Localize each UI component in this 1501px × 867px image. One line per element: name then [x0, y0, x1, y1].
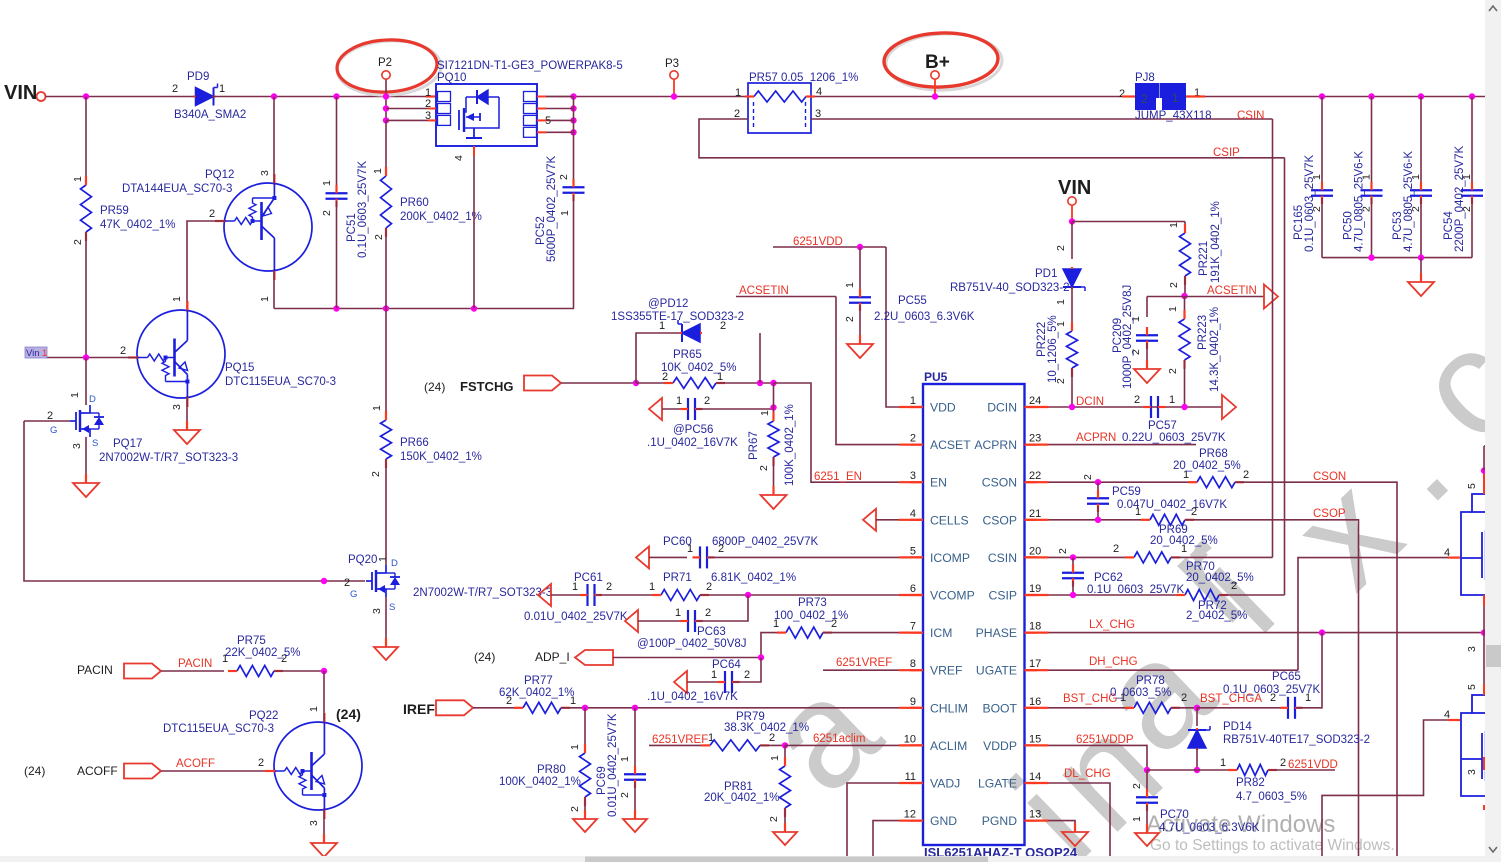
svg-text:2: 2: [1055, 245, 1067, 251]
svg-text:PR223: PR223: [1197, 315, 1209, 350]
svg-text:PQ22: PQ22: [249, 710, 278, 722]
svg-text:4: 4: [1444, 547, 1450, 559]
svg-text:GND: GND: [930, 814, 957, 828]
svg-text:S: S: [389, 602, 395, 613]
svg-text:(24): (24): [336, 706, 361, 722]
svg-text:ACPRN: ACPRN: [1076, 432, 1116, 444]
svg-text:PHASE: PHASE: [976, 626, 1017, 640]
svg-text:ACPRN: ACPRN: [974, 438, 1017, 452]
svg-text:22K_0402_5%: 22K_0402_5%: [225, 647, 300, 659]
svg-text:CSOP: CSOP: [1313, 508, 1346, 520]
svg-text:1: 1: [1169, 394, 1175, 406]
svg-text:20_0402_5%: 20_0402_5%: [1173, 460, 1241, 472]
svg-text:2.2U_0603_6.3V6K: 2.2U_0603_6.3V6K: [874, 311, 975, 323]
svg-text:1: 1: [69, 392, 81, 398]
svg-text:3: 3: [71, 443, 83, 449]
svg-text:PC63: PC63: [697, 626, 726, 638]
svg-text:1: 1: [1131, 816, 1143, 822]
svg-text:PC64: PC64: [712, 659, 741, 671]
svg-text:2: 2: [1410, 206, 1422, 212]
svg-text:2: 2: [1167, 368, 1179, 374]
svg-text:4.7U_0603_6.3V6K: 4.7U_0603_6.3V6K: [1159, 822, 1260, 834]
svg-text:2: 2: [1057, 548, 1069, 554]
svg-text:20K_0402_1%: 20K_0402_1%: [704, 792, 779, 804]
svg-text:PC61: PC61: [574, 572, 603, 584]
svg-text:VIN: VIN: [4, 82, 37, 104]
svg-text:1: 1: [1410, 174, 1422, 180]
svg-text:0.1U_0603_25V7K: 0.1U_0603_25V7K: [1223, 684, 1321, 696]
svg-text:4.7U_0805_25V6-K: 4.7U_0805_25V6-K: [1403, 151, 1415, 252]
svg-text:2: 2: [705, 607, 711, 619]
svg-text:5: 5: [1466, 684, 1478, 690]
svg-text:IREF: IREF: [403, 701, 435, 717]
svg-text:2: 2: [120, 345, 126, 357]
svg-text:PR60: PR60: [400, 197, 429, 209]
svg-text:VDD: VDD: [930, 401, 956, 415]
svg-text:2: 2: [768, 816, 780, 822]
svg-text:100_0402_1%: 100_0402_1%: [774, 610, 848, 622]
svg-text:@PC56: @PC56: [673, 424, 713, 436]
svg-text:FSTCHG: FSTCHG: [460, 379, 513, 394]
svg-text:5: 5: [1466, 483, 1478, 489]
svg-text:2: 2: [72, 239, 84, 245]
svg-text:9: 9: [910, 696, 916, 708]
svg-text:200K_0402_1%: 200K_0402_1%: [400, 211, 482, 223]
svg-text:2: 2: [1131, 783, 1143, 789]
svg-text:CSIP: CSIP: [1213, 147, 1240, 159]
svg-text:2: 2: [718, 543, 724, 555]
svg-text:1: 1: [1361, 174, 1373, 180]
svg-text:DCIN: DCIN: [987, 401, 1017, 415]
svg-text:8: 8: [910, 658, 916, 670]
svg-text:47K_0402_1%: 47K_0402_1%: [100, 219, 175, 231]
svg-text:3: 3: [259, 170, 271, 176]
svg-text:PC59: PC59: [1112, 486, 1141, 498]
svg-text:DL_CHG: DL_CHG: [1064, 768, 1111, 780]
svg-text:EN: EN: [930, 476, 947, 490]
svg-text:6251VREF: 6251VREF: [836, 657, 892, 669]
svg-text:PR77: PR77: [524, 675, 553, 687]
svg-text:PD14: PD14: [1223, 721, 1252, 733]
svg-text:PC62: PC62: [1094, 572, 1123, 584]
svg-text:DTC115EUA_SC70-3: DTC115EUA_SC70-3: [225, 376, 336, 388]
svg-text:DCIN: DCIN: [1076, 396, 1104, 408]
svg-text:CSIN: CSIN: [988, 551, 1017, 565]
svg-text:PR75: PR75: [237, 635, 266, 647]
svg-text:ACSET: ACSET: [930, 438, 971, 452]
svg-text:PD9: PD9: [187, 71, 209, 83]
svg-text:1: 1: [321, 180, 333, 186]
svg-text:5600P_0402_25V7K: 5600P_0402_25V7K: [546, 156, 558, 262]
svg-text:191K_0402_1%: 191K_0402_1%: [1210, 201, 1222, 283]
svg-text:VREF: VREF: [930, 664, 963, 678]
svg-text:2: 2: [619, 792, 631, 798]
svg-text:(24): (24): [474, 650, 495, 664]
svg-text:ACSETIN: ACSETIN: [1207, 285, 1257, 297]
svg-text:0_0603_5%: 0_0603_5%: [1110, 687, 1171, 699]
svg-text:S: S: [92, 438, 98, 449]
svg-text:BOOT: BOOT: [982, 701, 1017, 715]
svg-text:1: 1: [649, 581, 655, 593]
svg-text:1: 1: [377, 556, 389, 562]
svg-text:ACLIM: ACLIM: [930, 739, 967, 753]
svg-text:2: 2: [844, 316, 856, 322]
svg-text:2: 2: [1311, 206, 1323, 212]
svg-text:10_1206_5%: 10_1206_5%: [1047, 315, 1059, 383]
svg-text:24: 24: [1029, 395, 1041, 407]
svg-text:100K_0402_1%: 100K_0402_1%: [499, 776, 581, 788]
svg-text:17: 17: [1029, 658, 1041, 670]
svg-text:1: 1: [72, 176, 84, 182]
svg-text:2: 2: [1113, 543, 1119, 555]
svg-text:5: 5: [910, 545, 916, 557]
svg-text:LX_CHG: LX_CHG: [1089, 619, 1135, 631]
svg-text:PACIN: PACIN: [178, 658, 212, 670]
svg-text:PR66: PR66: [400, 437, 429, 449]
svg-text:10K_0402_5%: 10K_0402_5%: [661, 362, 736, 374]
svg-text:2: 2: [1119, 88, 1125, 100]
svg-text:B+: B+: [925, 52, 950, 73]
svg-text:1: 1: [1168, 222, 1180, 228]
svg-text:ACOFF: ACOFF: [176, 758, 215, 770]
svg-text:3: 3: [1466, 769, 1478, 775]
svg-text:1: 1: [1220, 757, 1226, 769]
svg-text:CSON: CSON: [982, 476, 1017, 490]
svg-text:1: 1: [676, 395, 682, 407]
svg-text:@PD12: @PD12: [648, 298, 688, 310]
svg-text:11: 11: [905, 771, 916, 783]
svg-text:14.3K_0402_1%: 14.3K_0402_1%: [1209, 307, 1221, 392]
svg-text:VIN: VIN: [1058, 177, 1091, 199]
svg-text:15: 15: [1029, 733, 1041, 745]
svg-text:1: 1: [171, 296, 183, 302]
svg-text:21: 21: [1029, 508, 1041, 520]
svg-text:D: D: [89, 394, 96, 405]
svg-text:1: 1: [1172, 91, 1179, 105]
svg-text:VDDP: VDDP: [983, 739, 1017, 753]
svg-text:(24): (24): [24, 764, 45, 778]
svg-text:3: 3: [910, 470, 916, 482]
svg-text:PQ10: PQ10: [437, 72, 466, 84]
svg-text:13: 13: [1029, 809, 1041, 821]
svg-text:2: 2: [1141, 92, 1148, 106]
svg-text:10: 10: [904, 733, 916, 745]
svg-text:D: D: [391, 558, 398, 569]
svg-text:20: 20: [1029, 545, 1041, 557]
svg-text:4: 4: [910, 508, 916, 520]
svg-text:PC65: PC65: [1272, 671, 1301, 683]
svg-text:23: 23: [1029, 433, 1041, 445]
svg-text:0.22U_0603_25V7K: 0.22U_0603_25V7K: [1122, 432, 1226, 444]
svg-text:1: 1: [372, 168, 384, 174]
svg-text:PGND: PGND: [982, 814, 1017, 828]
svg-text:PR57 0.05_1206_1%: PR57 0.05_1206_1%: [749, 72, 858, 84]
svg-text:1: 1: [1311, 174, 1323, 180]
svg-text:CSIP: CSIP: [989, 589, 1017, 603]
svg-text:3: 3: [308, 820, 320, 826]
svg-text:2: 2: [910, 433, 916, 445]
svg-text:22: 22: [1029, 470, 1041, 482]
svg-text:1: 1: [1181, 543, 1187, 555]
svg-text:16: 16: [1029, 696, 1041, 708]
svg-text:19: 19: [1029, 583, 1041, 595]
svg-text:CSIN: CSIN: [1237, 110, 1264, 122]
svg-text:6251aclim: 6251aclim: [813, 733, 865, 745]
svg-text:12: 12: [904, 809, 916, 821]
svg-text:2: 2: [1168, 282, 1180, 288]
svg-text:7: 7: [910, 621, 916, 633]
svg-text:38.3K_0402_1%: 38.3K_0402_1%: [724, 722, 809, 734]
svg-text:2: 2: [344, 577, 350, 589]
svg-text:1: 1: [559, 210, 571, 216]
svg-text:1: 1: [844, 282, 856, 288]
svg-text:ACSETIN: ACSETIN: [739, 285, 789, 297]
svg-text:(24): (24): [424, 380, 445, 394]
svg-text:PC57: PC57: [1148, 420, 1177, 432]
svg-text:ADP_I: ADP_I: [535, 650, 570, 664]
svg-text:Vin: Vin: [26, 348, 40, 359]
svg-text:2N7002W-T/R7_SOT323-3: 2N7002W-T/R7_SOT323-3: [99, 452, 238, 464]
svg-text:1: 1: [1167, 306, 1179, 312]
svg-text:1: 1: [1135, 506, 1141, 518]
svg-text:3: 3: [171, 404, 183, 410]
svg-text:PU5: PU5: [924, 370, 948, 384]
svg-text:6: 6: [910, 583, 916, 595]
svg-text:3: 3: [371, 608, 383, 614]
svg-text:2_0402_5%: 2_0402_5%: [1186, 610, 1247, 622]
svg-text:PC70: PC70: [1160, 809, 1189, 821]
svg-text:6.81K_0402_1%: 6.81K_0402_1%: [711, 572, 796, 584]
svg-text:G: G: [350, 589, 357, 600]
svg-text:1: 1: [42, 348, 47, 359]
svg-text:VCOMP: VCOMP: [930, 589, 975, 603]
svg-text:1: 1: [219, 83, 225, 95]
svg-text:RB751V-40_SOD323-2: RB751V-40_SOD323-2: [950, 282, 1070, 294]
svg-text:2: 2: [1243, 469, 1249, 481]
svg-text:PJ8: PJ8: [1135, 72, 1155, 84]
svg-text:2: 2: [373, 234, 385, 240]
svg-text:PR59: PR59: [100, 205, 129, 217]
svg-text:PC55: PC55: [898, 295, 927, 307]
svg-text:.1U_0402_16V7K: .1U_0402_16V7K: [647, 437, 738, 449]
svg-text:0.01U_0402_25V7K: 0.01U_0402_25V7K: [607, 713, 619, 817]
svg-text:1000P_0402_25V8J: 1000P_0402_25V8J: [1122, 285, 1134, 389]
svg-text:0.1U_0603_25V7K: 0.1U_0603_25V7K: [357, 160, 369, 258]
svg-text:1: 1: [308, 706, 320, 712]
svg-text:PR67: PR67: [748, 431, 760, 460]
svg-text:2: 2: [209, 208, 215, 220]
svg-text:ACOFF: ACOFF: [77, 764, 118, 778]
svg-text:0.01U_0402_25V7K: 0.01U_0402_25V7K: [524, 611, 628, 623]
svg-text:PR73: PR73: [798, 597, 827, 609]
svg-text:LGATE: LGATE: [978, 777, 1017, 791]
svg-text:6251VREF: 6251VREF: [652, 734, 708, 746]
svg-text:1: 1: [759, 410, 771, 416]
svg-text:PR65: PR65: [673, 349, 702, 361]
svg-text:1: 1: [735, 87, 741, 99]
svg-text:6251VDDP: 6251VDDP: [1076, 734, 1134, 746]
svg-text:PD1: PD1: [1035, 268, 1057, 280]
svg-text:P2: P2: [378, 57, 392, 69]
svg-text:P3: P3: [665, 58, 679, 70]
svg-text:1SS355TE-17_SOD323-2: 1SS355TE-17_SOD323-2: [611, 311, 744, 323]
svg-text:2: 2: [1231, 580, 1237, 592]
svg-text:PR78: PR78: [1136, 675, 1165, 687]
svg-text:150K_0402_1%: 150K_0402_1%: [400, 451, 482, 463]
svg-text:0.047U_0402_16V7K: 0.047U_0402_16V7K: [1117, 499, 1227, 511]
svg-text:2: 2: [321, 210, 333, 216]
svg-text:1: 1: [675, 607, 681, 619]
svg-text:2: 2: [1191, 506, 1197, 518]
svg-text:PR71: PR71: [663, 572, 692, 584]
svg-text:1: 1: [687, 543, 693, 555]
svg-text:3: 3: [1466, 646, 1478, 652]
svg-text:2: 2: [1361, 206, 1373, 212]
svg-text:2: 2: [258, 757, 264, 769]
svg-text:PACIN: PACIN: [77, 663, 113, 677]
svg-text:@100P_0402_50V8J: @100P_0402_50V8J: [637, 638, 747, 650]
svg-text:2: 2: [370, 471, 382, 477]
svg-text:PQ15: PQ15: [225, 362, 254, 374]
svg-text:1: 1: [371, 405, 383, 411]
svg-text:2: 2: [1461, 206, 1473, 212]
svg-text:.1U_0402_16V7K: .1U_0402_16V7K: [647, 691, 738, 703]
svg-text:100K_0402_1%: 100K_0402_1%: [784, 404, 796, 486]
svg-text:1: 1: [769, 755, 781, 761]
svg-text:JUMP_43X118: JUMP_43X118: [1135, 110, 1212, 122]
svg-text:4: 4: [453, 155, 465, 161]
svg-text:CSOP: CSOP: [982, 513, 1017, 527]
svg-text:20_0402_5%: 20_0402_5%: [1186, 572, 1254, 584]
svg-text:PR68: PR68: [1199, 448, 1228, 460]
svg-text:2: 2: [558, 174, 570, 180]
svg-text:UGATE: UGATE: [976, 664, 1017, 678]
svg-text:PR82: PR82: [1236, 777, 1265, 789]
svg-text:CELLS: CELLS: [930, 513, 969, 527]
svg-text:PQ12: PQ12: [205, 169, 234, 181]
svg-text:4.7_0603_5%: 4.7_0603_5%: [1236, 791, 1307, 803]
svg-text:1: 1: [1461, 174, 1473, 180]
svg-text:2: 2: [758, 465, 770, 471]
svg-text:2: 2: [704, 395, 710, 407]
svg-text:2: 2: [606, 581, 612, 593]
svg-text:4: 4: [816, 86, 822, 98]
svg-text:RB751V-40TE17_SOD323-2: RB751V-40TE17_SOD323-2: [1223, 734, 1370, 746]
svg-text:2: 2: [744, 669, 750, 681]
svg-text:DH_CHG: DH_CHG: [1089, 656, 1138, 668]
svg-text:PQ20: PQ20: [348, 554, 377, 566]
svg-text:PR221: PR221: [1198, 241, 1210, 276]
svg-text:18: 18: [1029, 621, 1041, 633]
svg-text:PR80: PR80: [537, 764, 566, 776]
svg-text:CSON: CSON: [1313, 471, 1346, 483]
svg-text:2N7002W-T/R7_SOT323-3: 2N7002W-T/R7_SOT323-3: [413, 587, 552, 599]
svg-text:1: 1: [619, 756, 631, 762]
svg-text:ICM: ICM: [930, 626, 952, 640]
svg-text:0.1U_0603_25V7K: 0.1U_0603_25V7K: [1304, 154, 1316, 252]
svg-text:DTC115EUA_SC70-3: DTC115EUA_SC70-3: [163, 723, 274, 735]
svg-text:1: 1: [1055, 299, 1067, 305]
svg-text:14: 14: [1029, 771, 1041, 783]
svg-text:2: 2: [1082, 474, 1094, 480]
svg-text:2200P_0402_25V7K: 2200P_0402_25V7K: [1454, 146, 1466, 252]
svg-text:2: 2: [1181, 692, 1187, 704]
svg-text:62K_0402_1%: 62K_0402_1%: [499, 687, 574, 699]
svg-text:2: 2: [172, 83, 178, 95]
svg-text:G: G: [50, 425, 57, 436]
svg-text:1: 1: [910, 395, 916, 407]
svg-text:CHLIM: CHLIM: [930, 701, 968, 715]
svg-text:6251_EN: 6251_EN: [814, 471, 862, 483]
svg-text:SI7121DN-T1-GE3_POWERPAK8-5: SI7121DN-T1-GE3_POWERPAK8-5: [437, 60, 623, 72]
svg-text:1: 1: [259, 296, 271, 302]
svg-text:ICOMP: ICOMP: [930, 551, 970, 565]
svg-text:1: 1: [569, 744, 581, 750]
svg-text:PQ17: PQ17: [113, 438, 142, 450]
svg-text:2: 2: [1134, 394, 1140, 406]
svg-text:DTA144EUA_SC70-3: DTA144EUA_SC70-3: [122, 183, 232, 195]
svg-text:4.7U_0805_25V6-K: 4.7U_0805_25V6-K: [1354, 151, 1366, 252]
svg-text:B340A_SMA2: B340A_SMA2: [174, 109, 246, 121]
svg-text:VADJ: VADJ: [930, 777, 960, 791]
svg-text:6800P_0402_25V7K: 6800P_0402_25V7K: [712, 536, 818, 548]
svg-text:6251VDD: 6251VDD: [1288, 759, 1338, 771]
svg-text:2: 2: [569, 806, 581, 812]
svg-text:2: 2: [1280, 757, 1286, 769]
